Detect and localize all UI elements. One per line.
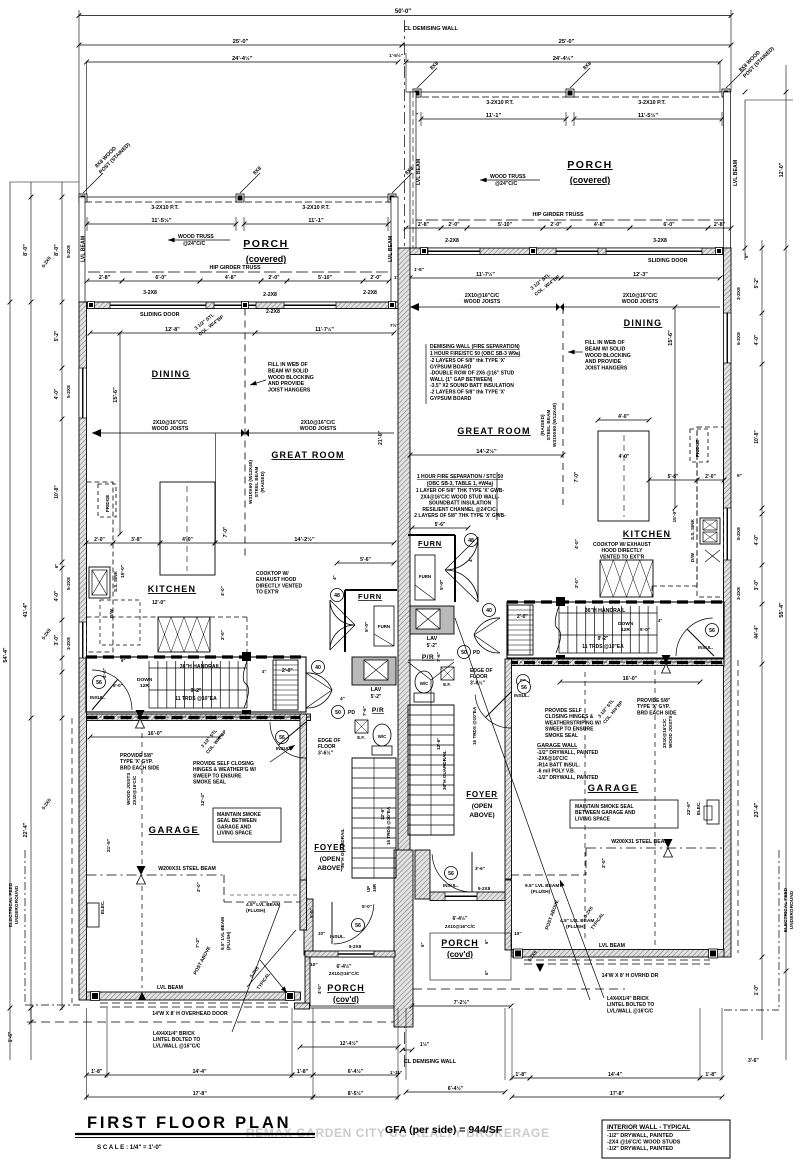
- svg-text:6": 6": [420, 942, 425, 947]
- svg-text:SOUNDBATT INSULATION: SOUNDBATT INSULATION: [429, 501, 492, 507]
- svg-text:7'-0": 7'-0": [574, 471, 580, 482]
- left porch slab: [295, 1003, 310, 1009]
- svg-text:11'-7½": 11'-7½": [315, 326, 334, 333]
- svg-text:14'-2½": 14'-2½": [294, 536, 315, 543]
- svg-text:(FLUSH): (FLUSH): [226, 931, 231, 950]
- svg-text:2'-0": 2'-0": [448, 222, 460, 228]
- svg-text:(OPEN: (OPEN: [472, 803, 493, 810]
- left porch edges LVL beam: [79, 197, 85, 302]
- svg-text:MAINTAIN SMOKE SEAL: MAINTAIN SMOKE SEAL: [575, 804, 634, 810]
- svg-text:2'-0": 2'-0": [196, 882, 201, 892]
- svg-text:-2X6@16'C/C: -2X6@16'C/C: [537, 756, 568, 762]
- left foyer-garage door: [270, 722, 306, 758]
- counter edge bottom left: [87, 616, 159, 618]
- svg-text:DIRECTLY VENTED: DIRECTLY VENTED: [256, 583, 303, 589]
- sink left: [89, 567, 110, 598]
- west exterior wall: [79, 302, 87, 1000]
- dim 25'-0" left: [79, 44, 402, 46]
- svg-text:12'-8": 12'-8": [165, 327, 180, 333]
- left bottom extension lines: [86, 1008, 88, 1078]
- svg-text:LINTEL BOLTED TO: LINTEL BOLTED TO: [153, 1037, 200, 1043]
- FURN room left walls: [345, 589, 397, 591]
- svg-text:WOOD JOISTS: WOOD JOISTS: [464, 299, 501, 305]
- svg-text:GYPSUM BOARD: GYPSUM BOARD: [430, 364, 472, 370]
- svg-text:3'-8": 3'-8": [131, 537, 142, 543]
- svg-text:4'-0": 4'-0": [619, 454, 630, 460]
- svg-text:2'-0": 2'-0": [220, 630, 225, 640]
- svg-text:3-2X8: 3-2X8: [66, 637, 72, 650]
- svg-text:15 TRDS @10"EA: 15 TRDS @10"EA: [472, 706, 477, 745]
- west wall window 1: [79, 368, 87, 418]
- svg-text:5'-2": 5'-2": [754, 277, 760, 288]
- svg-text:5'-2": 5'-2": [54, 330, 60, 341]
- dim 7'-2.5 right porch: [412, 1005, 511, 1007]
- left bottom chain 1: [87, 1074, 108, 1076]
- svg-text:14'W X 8' H OVERHEAD DOOR: 14'W X 8' H OVERHEAD DOOR: [152, 1011, 228, 1017]
- svg-text:25'-0": 25'-0": [559, 39, 575, 45]
- svg-text:15'-0": 15'-0": [672, 509, 678, 522]
- right porch LVL beam edges: [410, 92, 416, 248]
- svg-text:6": 6": [484, 970, 489, 975]
- circle 48 right: [465, 534, 478, 547]
- svg-text:L4X4X1/4" BRICK: L4X4X1/4" BRICK: [607, 996, 649, 1002]
- left garage joist dashed: [141, 724, 143, 988]
- svg-text:LAV: LAV: [371, 687, 382, 693]
- svg-text:8'-5½": 8'-5½": [348, 1090, 364, 1097]
- svg-text:3'-0": 3'-0": [754, 579, 760, 590]
- svg-text:55'-4": 55'-4": [779, 602, 785, 618]
- svg-text:HIP GIRDER TRUSS: HIP GIRDER TRUSS: [209, 265, 261, 271]
- circle 40 right: [483, 604, 496, 617]
- svg-text:40: 40: [315, 665, 321, 671]
- svg-text:1'-6": 1'-6": [8, 1031, 14, 1042]
- svg-text:4'-0": 4'-0": [618, 414, 629, 420]
- svg-text:4'-0": 4'-0": [102, 668, 107, 678]
- svg-text:5-2X8: 5-2X8: [736, 332, 742, 345]
- right north wall window 2: [556, 248, 598, 255]
- circle 56 left foyer: [276, 731, 289, 744]
- svg-text:FILL IN WEB OF: FILL IN WEB OF: [268, 362, 308, 368]
- svg-text:LVL BEAM: LVL BEAM: [388, 236, 394, 262]
- svg-text:2'-0": 2'-0": [268, 275, 280, 281]
- svg-text:4": 4": [468, 557, 473, 562]
- svg-text:GYPSUM BOARD: GYPSUM BOARD: [430, 396, 472, 402]
- left overhead door: [100, 1002, 288, 1004]
- left margin line x10: [9, 182, 11, 1060]
- svg-text:12'-4": 12'-4": [200, 793, 206, 806]
- left stair break line: [243, 661, 248, 708]
- left overhang dashed: [27, 1021, 394, 1023]
- left porch west wall: [305, 957, 310, 1006]
- svg-text:5-2X8: 5-2X8: [478, 886, 491, 891]
- svg-text:WALL (1" GAP BETWEEN): WALL (1" GAP BETWEEN): [430, 377, 493, 383]
- svg-text:WOOD JOISTS: WOOD JOISTS: [152, 426, 189, 432]
- dashed counter right: [652, 585, 697, 587]
- left leader diagonals: [232, 905, 280, 1032]
- steel beam dashed left: [244, 309, 246, 561]
- svg-text:7'-6": 7'-6": [362, 706, 367, 716]
- svg-text:2'-8": 2'-8": [418, 222, 430, 228]
- svg-text:24'-4½": 24'-4½": [553, 55, 574, 62]
- circle 56 right foyer: [518, 681, 531, 694]
- dim below right north wall: [410, 277, 561, 279]
- svg-text:50: 50: [461, 650, 467, 656]
- svg-text:LVL BEAM: LVL BEAM: [599, 943, 625, 949]
- sink right: [700, 518, 720, 544]
- left north wall window 2: [214, 302, 256, 309]
- svg-text:5'-10": 5'-10": [498, 222, 513, 228]
- svg-text:-1/2" DRYWALL, PAINTED: -1/2" DRYWALL, PAINTED: [537, 750, 599, 756]
- svg-text:36"H HANDRAIL: 36"H HANDRAIL: [180, 664, 221, 670]
- svg-text:6": 6": [121, 658, 125, 663]
- svg-text:5'-0": 5'-0": [439, 580, 445, 590]
- label 8x8 post leaders right: [417, 68, 437, 88]
- svg-text:6": 6": [737, 473, 742, 479]
- svg-text:5'-0": 5'-0": [309, 908, 314, 918]
- left stair ladder grid: [273, 660, 298, 710]
- svg-text:1½": 1½": [420, 1041, 430, 1048]
- svg-text:4'-8": 4'-8": [225, 275, 237, 281]
- right porch top wall: [430, 892, 505, 901]
- dim 15'-6 right: [674, 307, 676, 508]
- svg-text:4": 4": [262, 669, 266, 674]
- svg-text:5'-8": 5'-8": [668, 474, 679, 480]
- dim 14'-2.5 right: [410, 454, 563, 456]
- svg-text:MAINTAIN SMOKE: MAINTAIN SMOKE: [217, 812, 261, 818]
- svg-text:DINING: DINING: [152, 369, 191, 379]
- svg-text:3'-6": 3'-6": [748, 1058, 759, 1064]
- svg-text:2X10@16"C/C: 2X10@16"C/C: [329, 971, 360, 976]
- svg-text:D/W: D/W: [690, 552, 695, 562]
- svg-text:TYPE 'X' GYP.: TYPE 'X' GYP.: [637, 704, 670, 710]
- svg-text:2-2X8: 2-2X8: [263, 292, 277, 298]
- svg-text:7'-0": 7'-0": [223, 526, 229, 537]
- svg-text:10": 10": [318, 931, 325, 936]
- svg-text:12'-6": 12'-6": [436, 738, 441, 750]
- right margin line x762: [761, 240, 763, 1040]
- svg-text:ABOVE): ABOVE): [317, 865, 342, 872]
- svg-text:W/C: W/C: [420, 681, 429, 686]
- svg-text:FURN: FURN: [419, 574, 431, 579]
- FURN room right walls: [408, 534, 455, 536]
- right porch front edge: [406, 91, 731, 93]
- fridge left: [98, 484, 116, 517]
- right margin line x786: [785, 65, 787, 1060]
- dim below left north wall: [90, 332, 255, 334]
- svg-text:6'-0": 6'-0": [155, 275, 167, 281]
- svg-text:COOKTOP W/ EXHAUST: COOKTOP W/ EXHAUST: [593, 542, 651, 548]
- svg-text:PORCH: PORCH: [243, 238, 288, 250]
- svg-text:2'-0": 2'-0": [370, 275, 382, 281]
- kitchen counter right: [697, 427, 724, 597]
- svg-text:TO EXT'R: TO EXT'R: [256, 590, 279, 596]
- right steel beam: [586, 847, 724, 849]
- svg-text:-1/2" DRYWALL, PAINTED: -1/2" DRYWALL, PAINTED: [607, 1146, 673, 1152]
- svg-text:2'-0": 2'-0": [94, 537, 105, 543]
- title underline: [75, 1133, 315, 1135]
- label wood truss right: [480, 179, 540, 181]
- left front door (double): [329, 600, 331, 650]
- cooktop left: [158, 617, 210, 652]
- svg-text:(cov'd): (cov'd): [333, 995, 359, 1004]
- svg-text:BEAM W/ SOLID: BEAM W/ SOLID: [268, 368, 309, 374]
- left bottom chain 2: [86, 1078, 88, 1100]
- svg-text:CL DEMISING WALL: CL DEMISING WALL: [404, 1059, 457, 1065]
- right stair treads: [558, 606, 560, 653]
- dim 24'-4.5" left: [86, 62, 88, 197]
- svg-text:3-2X10 P.T.: 3-2X10 P.T.: [486, 100, 514, 106]
- svg-text:11'-1": 11'-1": [308, 218, 324, 224]
- svg-text:TYPE 'X' GYP.: TYPE 'X' GYP.: [120, 759, 153, 765]
- svg-text:E.F.: E.F.: [357, 735, 365, 740]
- svg-text:INSUL.: INSUL.: [90, 695, 105, 700]
- right front door (double): [477, 537, 479, 602]
- svg-text:2'-8": 2'-8": [99, 275, 111, 281]
- right margin top tie: [745, 99, 793, 101]
- left steel beam: [87, 874, 225, 876]
- svg-text:@24"C/C: @24"C/C: [183, 241, 205, 247]
- svg-text:14'-4": 14'-4": [192, 1069, 207, 1075]
- svg-text:4'-0": 4'-0": [754, 534, 760, 545]
- dim kitchen left: [86, 542, 113, 544]
- right north wall: [406, 248, 731, 255]
- left porch front edge: [79, 196, 398, 198]
- svg-text:3'-6½": 3'-6½": [318, 749, 334, 756]
- svg-text:41'-4": 41'-4": [23, 602, 29, 617]
- svg-text:36"H GUARDRAIL: 36"H GUARDRAIL: [442, 750, 447, 790]
- svg-text:WOOD BLOCKING: WOOD BLOCKING: [585, 353, 631, 359]
- svg-text:-R14 BATT INSUL.: -R14 BATT INSUL.: [537, 762, 581, 768]
- left north wall: [87, 302, 399, 309]
- svg-text:9.5" LVL BEAM: 9.5" LVL BEAM: [525, 883, 559, 889]
- svg-text:48: 48: [334, 593, 340, 599]
- left garage east wall: [300, 714, 307, 930]
- svg-text:9.5" LVL BEAM: 9.5" LVL BEAM: [220, 917, 225, 950]
- maintain smoke seal right box: [570, 800, 678, 828]
- svg-text:W310X60 (W12X40): W310X60 (W12X40): [552, 403, 558, 447]
- svg-text:21'-6": 21'-6": [106, 839, 112, 852]
- svg-text:D/W: D/W: [109, 608, 114, 618]
- hip girder truss right: [410, 219, 724, 221]
- svg-text:E.F.: E.F.: [443, 682, 451, 687]
- svg-text:14'-4": 14'-4": [608, 1072, 623, 1078]
- svg-text:BETWEEN GARAGE AND: BETWEEN GARAGE AND: [575, 810, 636, 816]
- svg-text:COOKTOP W/: COOKTOP W/: [256, 571, 289, 577]
- svg-text:BRD EACH SIDE: BRD EACH SIDE: [637, 710, 677, 716]
- svg-text:50: 50: [335, 710, 341, 716]
- right garage north wall: [507, 659, 724, 666]
- svg-text:(FLUSH): (FLUSH): [566, 924, 586, 930]
- svg-text:5'-2": 5'-2": [371, 694, 382, 700]
- right garage joist dashed: [654, 670, 656, 945]
- joist line right: [410, 306, 720, 308]
- right elec panel: [707, 800, 719, 824]
- svg-text:5'-0": 5'-0": [113, 683, 123, 688]
- svg-text:6'-0": 6'-0": [663, 222, 675, 228]
- circle 50 left: [332, 706, 345, 719]
- svg-text:CLOSING HINGES &: CLOSING HINGES &: [545, 714, 594, 720]
- svg-text:ELEC.: ELEC.: [100, 900, 105, 914]
- svg-text:1 LAYER OF 5/8" THK TYPE 'X' G: 1 LAYER OF 5/8" THK TYPE 'X' GWB-: [416, 488, 505, 494]
- svg-text:2'-0": 2'-0": [601, 858, 606, 868]
- svg-text:W/C: W/C: [378, 734, 387, 739]
- left north wall sliding door: [110, 302, 206, 309]
- svg-text:FRIDGE: FRIDGE: [695, 440, 700, 457]
- svg-text:7'-2": 7'-2": [195, 938, 201, 948]
- furnace unit left: [374, 606, 394, 646]
- svg-text:FURN: FURN: [418, 539, 442, 548]
- left porch door: [334, 904, 374, 944]
- left porch top wall: [305, 951, 395, 957]
- svg-text:(OBC SB-3, TABLE 1, #W4a): (OBC SB-3, TABLE 1, #W4a): [427, 481, 494, 487]
- svg-text:-DOUBLE ROW OF 2X6 @16" STUD: -DOUBLE ROW OF 2X6 @16" STUD: [430, 371, 515, 377]
- right landing door: [474, 618, 500, 653]
- svg-text:3-2X8: 3-2X8: [736, 587, 742, 600]
- svg-text:1 HOUR FIRE SEPARATION / STC 5: 1 HOUR FIRE SEPARATION / STC 50: [417, 474, 503, 480]
- svg-text:LVL BEAM: LVL BEAM: [733, 160, 739, 186]
- svg-text:56: 56: [448, 871, 454, 877]
- svg-text:PD: PD: [473, 650, 480, 656]
- label wood truss left: [168, 239, 230, 241]
- svg-text:S.S. SINK: S.S. SINK: [690, 518, 695, 540]
- right garage west wall: [505, 659, 512, 879]
- svg-text:(covered): (covered): [570, 175, 611, 185]
- svg-text:LVL BEAM: LVL BEAM: [81, 236, 87, 262]
- dim 24'-4.5" right: [405, 53, 407, 92]
- dim right porch posts: [421, 118, 566, 120]
- electrical feed left: [24, 850, 26, 1005]
- svg-text:8'-0": 8'-0": [23, 244, 29, 256]
- svg-text:WOOD JOISTS: WOOD JOISTS: [300, 426, 337, 432]
- dim 5'-6 left furn: [337, 562, 394, 564]
- LAV right shaded: [410, 606, 454, 634]
- svg-text:HOOD DIRECTLY: HOOD DIRECTLY: [602, 548, 644, 554]
- svg-text:DOWN: DOWN: [618, 621, 634, 627]
- toilet right: [415, 671, 433, 693]
- svg-text:GREAT ROOM: GREAT ROOM: [457, 426, 530, 436]
- svg-text:6'-4½": 6'-4½": [448, 1085, 464, 1092]
- left margin line x62: [61, 182, 63, 1010]
- svg-text:11'-7½": 11'-7½": [476, 271, 495, 278]
- right garage overhang dashed east: [737, 660, 739, 953]
- svg-text:HINGES & WEATHER'G W/: HINGES & WEATHER'G W/: [193, 767, 257, 773]
- svg-text:1'-8": 1'-8": [91, 1069, 103, 1075]
- svg-text:FIRST FLOOR PLAN: FIRST FLOOR PLAN: [87, 1114, 291, 1132]
- svg-text:WOOD JOISTS: WOOD JOISTS: [622, 299, 659, 305]
- right big diagonal leader: [455, 618, 590, 1000]
- dim 16'-0 left garage: [90, 736, 220, 738]
- circle 56 left porch: [352, 919, 365, 932]
- west wall window 2: [79, 622, 87, 658]
- left foyer side wall: [304, 899, 313, 955]
- left garage north wall: [87, 714, 311, 721]
- svg-text:4'-0": 4'-0": [317, 984, 322, 994]
- fire separation text 2 right: [414, 474, 506, 519]
- right north wall sliding door: [606, 248, 702, 255]
- svg-text:PD: PD: [348, 710, 355, 716]
- svg-text:2'-0": 2'-0": [705, 474, 716, 480]
- joist line left: [92, 432, 394, 434]
- svg-text:S C A L E : 1/4" = 1'-0": S C A L E : 1/4" = 1'-0": [97, 1144, 162, 1151]
- svg-text:-2 LAYERS OF 5/8" thk TYPE 'X': -2 LAYERS OF 5/8" thk TYPE 'X': [430, 358, 505, 364]
- svg-text:UNDERGROUND: UNDERGROUND: [789, 890, 795, 929]
- svg-text:2-2X8: 2-2X8: [363, 290, 377, 296]
- right bottom chain 1: [406, 1091, 505, 1093]
- svg-text:2 LAYERS OF 5/8" THK TYPE 'X': 2 LAYERS OF 5/8" THK TYPE 'X' GWB-: [414, 513, 506, 519]
- svg-text:12'-4½": 12'-4½": [340, 1040, 359, 1047]
- svg-text:7'-6": 7'-6": [436, 652, 441, 662]
- svg-text:WOOD JOISTS: WOOD JOISTS: [668, 716, 673, 748]
- svg-text:3-2X10 P.T.: 3-2X10 P.T.: [302, 205, 330, 211]
- svg-text:(covered): (covered): [246, 254, 287, 264]
- svg-text:WOOD TRUSS: WOOD TRUSS: [490, 174, 526, 180]
- dim 16'-0 right garage: [560, 681, 700, 683]
- right foyer west wall lower: [505, 880, 512, 950]
- svg-text:1'-11": 1'-11": [390, 1070, 402, 1075]
- svg-text:2'-0": 2'-0": [550, 222, 562, 228]
- svg-text:FOYER: FOYER: [314, 843, 346, 852]
- svg-text:56: 56: [521, 685, 527, 691]
- svg-text:16'-0": 16'-0": [623, 676, 638, 682]
- hip girder truss left: [88, 271, 392, 273]
- svg-text:15'-6": 15'-6": [113, 387, 119, 403]
- svg-text:PROVIDE SELF: PROVIDE SELF: [545, 708, 582, 714]
- circle 48 left: [331, 589, 344, 602]
- svg-text:PORCH: PORCH: [327, 983, 365, 993]
- svg-text:LVL BEAM: LVL BEAM: [416, 159, 422, 185]
- left landing door to foyer: [306, 673, 332, 708]
- svg-text:6'-4½": 6'-4½": [453, 915, 469, 922]
- svg-text:5'-6": 5'-6": [360, 557, 371, 563]
- svg-text:PROVIDE SELF CLOSING: PROVIDE SELF CLOSING: [193, 761, 254, 767]
- svg-text:11'-1": 11'-1": [486, 113, 502, 119]
- svg-text:12'-0": 12'-0": [779, 162, 785, 177]
- electrical feed right: [778, 850, 780, 1010]
- svg-text:-1/2" DRYWALL, PAINTED: -1/2" DRYWALL, PAINTED: [607, 1133, 673, 1139]
- dim right porch lower chain: [406, 227, 441, 229]
- svg-text:23'-4": 23'-4": [754, 802, 760, 817]
- svg-text:GARAGE: GARAGE: [149, 825, 200, 836]
- svg-text:1'-5½": 1'-5½": [389, 52, 403, 58]
- svg-text:5-2X8: 5-2X8: [349, 944, 362, 949]
- dim 14'-2.5 left: [215, 542, 394, 544]
- dim 15'-6 left: [119, 333, 121, 534]
- svg-text:4'-0": 4'-0": [54, 590, 60, 601]
- svg-text:5'-0": 5'-0": [640, 627, 650, 632]
- svg-text:HIP GIRDER TRUSS: HIP GIRDER TRUSS: [532, 212, 584, 218]
- svg-text:SLIDING DOOR: SLIDING DOOR: [140, 312, 180, 318]
- right porch roof outline: [430, 933, 511, 980]
- left garage south wall: [87, 992, 301, 1000]
- svg-text:5'-10": 5'-10": [318, 275, 333, 281]
- svg-text:WOOD JOISTS: WOOD JOISTS: [126, 773, 131, 805]
- svg-text:12'-3": 12'-3": [633, 272, 648, 278]
- svg-text:(FLUSH): (FLUSH): [246, 908, 266, 914]
- svg-text:1 HOUR FIRE/STC 50 (OBC SB-3 W: 1 HOUR FIRE/STC 50 (OBC SB-3 W9a): [430, 351, 521, 357]
- svg-text:1'-8": 1'-8": [515, 1072, 527, 1078]
- porch post 8x8 left-3: [388, 194, 396, 202]
- svg-text:2'-8": 2'-8": [714, 222, 726, 228]
- svg-text:12'-0": 12'-0": [152, 600, 166, 606]
- svg-text:4'-0": 4'-0": [182, 537, 193, 543]
- svg-text:9'-2": 9'-2": [191, 688, 202, 694]
- svg-text:24'-4½": 24'-4½": [232, 55, 253, 62]
- svg-text:2X10@16'C/C: 2X10@16'C/C: [662, 718, 667, 748]
- svg-text:56: 56: [709, 628, 715, 634]
- label 8x8 post leaders left: [83, 173, 103, 193]
- svg-text:-6 mil POLY V.B.: -6 mil POLY V.B.: [537, 769, 576, 775]
- circle 56 right edge: [517, 675, 530, 688]
